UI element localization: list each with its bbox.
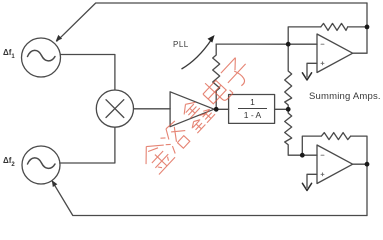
resistor R1 (PLL controlled) [213,44,220,109]
ground (U1 non-inverting input) [302,73,311,80]
junction node: U2 output [365,162,370,167]
char 鑫 [177,95,215,133]
wire U2 non-inverting stub [307,174,317,187]
arrowhead into source Δf1 [56,35,62,41]
wire block output to node B [275,108,289,110]
resistor R2 (node A to node B) [285,44,292,109]
label Summing Amps. [309,91,381,102]
wire amplifier output to block [214,108,229,110]
arrowhead into source Δf2 [52,180,58,187]
source Δf1 [22,38,61,77]
wire bottom feedback loop to source 2 [52,182,367,216]
wire top feedback loop to source 1 [57,3,367,41]
op-amp U2 [317,145,353,184]
resistor R3 (node B to node C) [285,109,303,155]
op-amp U2 feedback resistor R5 [302,133,367,216]
value label 1/(1-A) [238,97,267,120]
char 电 [199,75,233,109]
junction node: U1 feedback/output [365,25,370,30]
char 金 [137,137,175,175]
op-amp U1 feedback: riser and resistor R4 [288,23,367,44]
wire right vertical from top loop to op-amp U1 output [366,3,368,53]
wire U1 non-inverting stub [307,63,317,77]
char 洛 [158,120,193,155]
wire source Δf2 to mixer [60,127,115,163]
block 1/(1-A) [229,95,275,124]
PLL control arrow [182,35,215,69]
ground (U2 non-inverting input) [302,183,311,190]
source Δf2 [22,146,60,184]
mixer [96,90,133,127]
label Δf2 [3,156,15,168]
wire U2 output [353,163,367,165]
junction node C: U2 inverting [300,153,305,158]
label PLL [173,40,189,49]
junction node: amplifier output [214,107,219,112]
wire R1 top rail to op-amp U1 inverting node [216,43,288,45]
wire mixer to amplifier A [134,108,171,110]
junction node B: block output [286,107,291,112]
label Δf1 [3,48,15,60]
amplifier A [170,92,214,127]
char 子 [219,56,254,91]
op-amp U1 [317,34,353,73]
wire source Δf1 to mixer [60,55,115,91]
wire U1 inverting input [288,43,317,45]
junction node A: U1 inverting [286,42,291,47]
wire U1 output [353,52,367,54]
wire U2 inverting input [302,154,317,156]
